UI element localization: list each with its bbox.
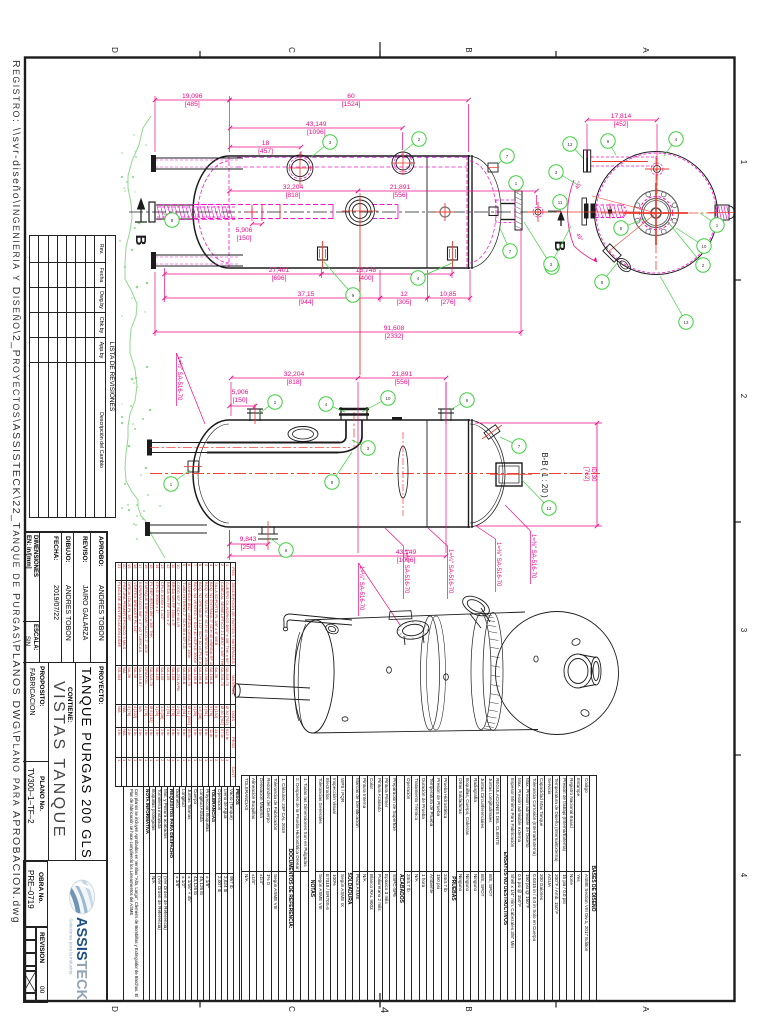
red pipe ticks bbox=[248, 205, 280, 219]
callout 1=¼" SA-516-70 bbox=[447, 546, 449, 599]
small check boxes bbox=[23, 927, 36, 1003]
extension line bbox=[451, 268, 453, 278]
seam bbox=[471, 419, 473, 528]
extension line bbox=[402, 132, 404, 150]
callout 1=¼" SA-516-70 bbox=[358, 563, 360, 616]
dim bbox=[162, 267, 323, 282]
balloon 10 bbox=[362, 391, 395, 412]
design data table bbox=[241, 775, 597, 1002]
extension line bbox=[321, 268, 323, 278]
dim bbox=[356, 184, 539, 199]
tank shell (plan view) bbox=[193, 156, 470, 268]
balloon 3 bbox=[544, 226, 571, 271]
balloon 6 bbox=[450, 393, 474, 410]
left small nozzle B-B bbox=[188, 461, 199, 472]
top nozzle x255 bbox=[247, 412, 263, 414]
balloon 6 bbox=[270, 538, 293, 557]
balloon 2 bbox=[258, 395, 282, 414]
extension line bbox=[536, 195, 538, 205]
top nozzle x446 bbox=[438, 412, 454, 414]
balloon 9 bbox=[601, 134, 616, 155]
bottom support leg B-B bbox=[148, 524, 207, 526]
extension line bbox=[656, 124, 658, 160]
balloon 7 bbox=[500, 437, 526, 453]
extension line bbox=[229, 96, 231, 152]
balloon 10 bbox=[676, 228, 711, 253]
parts list table bbox=[115, 562, 236, 787]
green speckle dots bbox=[119, 134, 161, 540]
dim bbox=[585, 113, 659, 128]
extension line bbox=[427, 270, 429, 302]
support leg top bbox=[153, 157, 243, 159]
zone tick right bbox=[735, 279, 742, 281]
upper-left hidden nozzle projection bbox=[591, 156, 655, 158]
balloon 9 bbox=[324, 262, 360, 302]
zone tick bottom bbox=[555, 1001, 557, 1008]
drain nozzle 1 bbox=[318, 247, 328, 260]
bottom nozzle B-B bbox=[261, 527, 263, 534]
3d center hub flange bbox=[564, 654, 601, 688]
callout 1=½" SA-516-70 bbox=[403, 546, 405, 599]
zone tick top bbox=[379, 51, 381, 58]
dim bbox=[228, 140, 303, 155]
extension line bbox=[229, 530, 231, 560]
coupling with red cross on centerline bbox=[440, 207, 450, 217]
title block column B : contiene bbox=[48, 663, 75, 861]
registro path text bbox=[11, 60, 22, 924]
3d top rail bbox=[283, 614, 352, 631]
dim bbox=[319, 267, 454, 282]
3d tab box on top bbox=[389, 611, 412, 620]
dim bbox=[162, 291, 382, 306]
revision cell bbox=[36, 927, 48, 1003]
balloon 1 bbox=[700, 213, 724, 232]
shell seam lines bbox=[426, 156, 428, 268]
title block column A bbox=[90, 533, 106, 663]
3d top flanged nozzle bbox=[396, 619, 430, 645]
dimension ID 30 [762] bbox=[596, 423, 598, 526]
callout 1=⅜" SA-516-70 bbox=[530, 531, 532, 584]
zone tick top bbox=[199, 51, 201, 58]
dim bbox=[153, 93, 232, 108]
3d seam rings bbox=[421, 616, 440, 730]
3d body outline bbox=[305, 612, 525, 620]
extension line bbox=[230, 382, 232, 416]
extension line bbox=[154, 272, 156, 336]
balloon 1 bbox=[509, 176, 523, 194]
main red centerline B-B bbox=[150, 473, 600, 475]
3d right head bbox=[496, 612, 619, 735]
balloon 8 bbox=[595, 262, 618, 289]
callout 1=½" SA-516-70 bbox=[176, 353, 178, 406]
balloon 3 bbox=[352, 440, 375, 455]
extension line bbox=[164, 268, 166, 302]
balloon 4 bbox=[664, 132, 683, 156]
balloon 12 bbox=[522, 480, 556, 515]
extension line bbox=[300, 151, 302, 156]
balloon 3 bbox=[549, 165, 578, 185]
balloon 1 bbox=[164, 470, 190, 491]
support leg bottom bbox=[153, 254, 243, 256]
extension line bbox=[586, 124, 588, 158]
balloon 2 bbox=[403, 132, 426, 152]
title block bbox=[25, 531, 108, 1001]
seam dashed bbox=[466, 156, 468, 268]
extension line bbox=[261, 208, 263, 221]
nozzle N3 (x403) bbox=[392, 152, 414, 174]
balloon 2 bbox=[668, 222, 710, 272]
balloon 7 bbox=[497, 149, 514, 165]
hidden lines on top edge bbox=[237, 156, 467, 158]
balloon 12 bbox=[563, 137, 583, 158]
dim bbox=[227, 549, 448, 564]
extension line bbox=[357, 382, 359, 553]
dim bbox=[425, 291, 472, 306]
balloon 3 bbox=[310, 135, 337, 158]
right manway B-B bbox=[496, 463, 522, 486]
extension line bbox=[251, 208, 253, 221]
zone tick top bbox=[555, 51, 557, 58]
3d small head nozzle bbox=[324, 622, 339, 635]
extension line bbox=[445, 382, 447, 405]
head weld dashed arcs bbox=[198, 161, 229, 263]
notes weights table bbox=[123, 786, 240, 1002]
balloon 8 bbox=[325, 452, 352, 489]
zone tick right bbox=[735, 754, 742, 756]
seam bbox=[426, 420, 428, 527]
center flange end view bbox=[634, 191, 679, 236]
dim bbox=[356, 371, 448, 386]
dim bbox=[378, 291, 430, 306]
3d knuckle band bbox=[471, 614, 491, 730]
callout 1=⅜" SA-516-70 bbox=[495, 539, 497, 592]
right head center nozzle bbox=[501, 204, 515, 220]
extension line bbox=[154, 96, 156, 152]
extension line bbox=[229, 530, 231, 548]
tangent dashed bbox=[228, 156, 230, 268]
pipe centerline v bbox=[353, 412, 355, 447]
extension line bbox=[379, 270, 381, 302]
title block proposito + plano bbox=[23, 663, 48, 762]
manway oval B-B bbox=[288, 427, 318, 442]
45 degree arc + labels bbox=[568, 180, 574, 246]
red leader vertical bbox=[359, 198, 361, 375]
small nozzle with red cross x538 bbox=[533, 207, 543, 217]
manway center flange bbox=[346, 197, 375, 226]
obra no bbox=[23, 861, 48, 927]
internal pipe section bbox=[151, 442, 207, 444]
end view red centerlines bbox=[624, 183, 688, 245]
big top nozzle flange B-B bbox=[339, 413, 369, 416]
svg-text:ASSISTECK: ASSISTECK bbox=[73, 917, 89, 1001]
extension line bbox=[468, 104, 470, 152]
zone tick bottom bbox=[199, 1001, 201, 1008]
right nozzle 3 oclock bbox=[715, 205, 729, 220]
balloon 11 bbox=[553, 195, 567, 209]
dim bbox=[228, 121, 405, 136]
left side flange 9 oclock bbox=[582, 198, 587, 225]
nozzle N2 top (x300) bbox=[287, 155, 313, 181]
head slope nozzle bbox=[484, 425, 500, 440]
balloon 4 bbox=[319, 397, 345, 412]
zone tick bottom bbox=[379, 1001, 381, 1008]
extension line bbox=[520, 228, 522, 336]
balloon 7 bbox=[500, 228, 517, 258]
3d left pipe bbox=[234, 684, 310, 700]
3d left head bbox=[292, 619, 336, 733]
3d tiny fittings bbox=[342, 656, 538, 721]
3d head small ports bbox=[571, 638, 590, 718]
internal dip tube dashed bbox=[193, 204, 333, 206]
inlet pipe left bbox=[156, 204, 194, 206]
balloon 6 bbox=[614, 218, 646, 235]
baffle bbox=[398, 446, 408, 498]
balloon 4 bbox=[411, 263, 452, 285]
dim bbox=[153, 325, 523, 340]
section arrow B left bbox=[135, 199, 147, 222]
extension line bbox=[469, 270, 471, 302]
green markup meander line bbox=[125, 116, 165, 558]
dim bbox=[227, 93, 470, 108]
end view shell circle bbox=[595, 152, 718, 275]
drain nozzle 2 bbox=[448, 247, 458, 260]
balloon 13 bbox=[660, 276, 693, 329]
seam bbox=[468, 419, 470, 528]
extension line bbox=[267, 548, 269, 550]
3d knuckle hatch ticks bbox=[483, 614, 500, 730]
section arrow B right bbox=[558, 212, 564, 226]
dim bbox=[227, 184, 360, 199]
red diagonals bbox=[592, 196, 656, 213]
svg-text:Soluciones para la industria: Soluciones para la industria bbox=[69, 918, 74, 975]
centerline main view bbox=[129, 211, 560, 213]
title block column B : proyecto bbox=[75, 663, 106, 861]
top nozzle red cross bbox=[651, 163, 663, 175]
pipe centerline bbox=[150, 447, 350, 449]
3d tilted flanged nozzle bbox=[459, 592, 492, 628]
centerline stub bbox=[548, 210, 561, 212]
small nozzle x493 bbox=[488, 163, 498, 172]
extension line bbox=[254, 406, 256, 410]
balloon 5 bbox=[524, 222, 559, 274]
centering mark top bbox=[379, 42, 381, 58]
45deg lower-left nozzle bbox=[603, 244, 621, 262]
balloon 8 bbox=[163, 213, 179, 227]
assisteck logo bbox=[48, 861, 106, 1003]
revision table LISTA DE REVISIONES bbox=[29, 235, 116, 518]
dim bbox=[229, 371, 360, 386]
zone tick right bbox=[735, 521, 742, 523]
